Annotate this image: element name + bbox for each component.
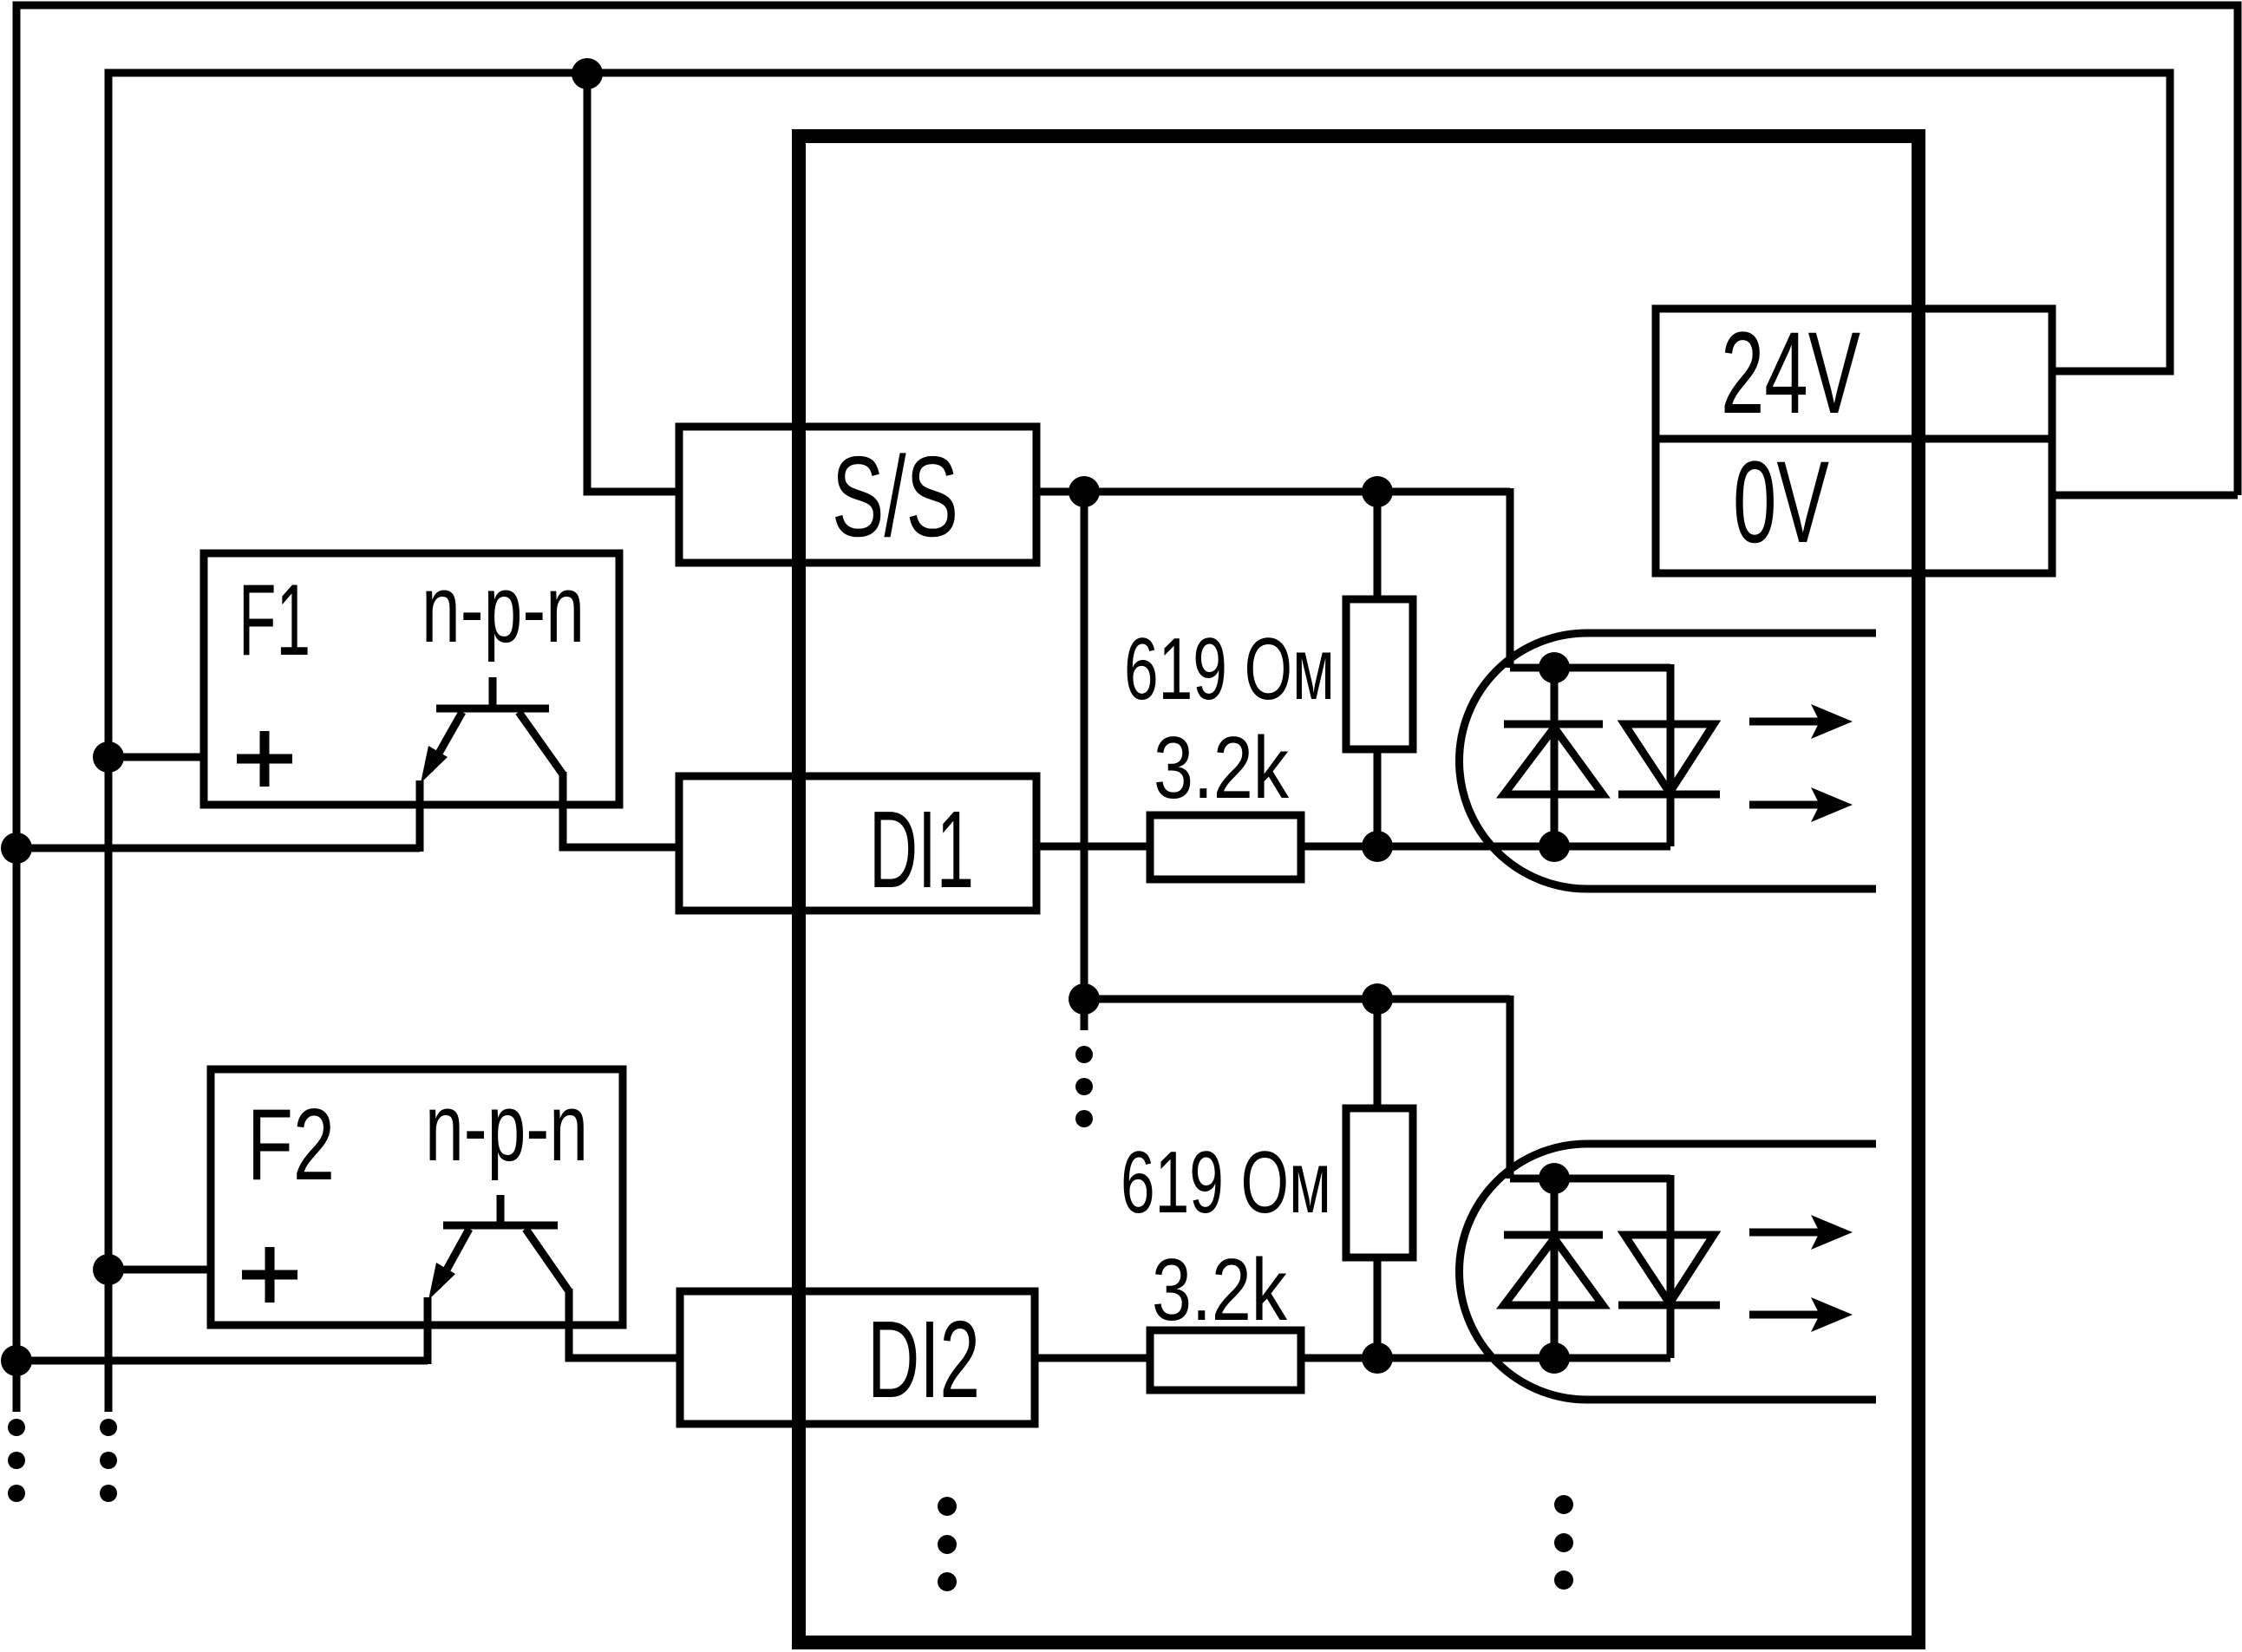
module outline (thick frame) xyxy=(799,136,1918,1642)
svg-text:F1: F1 xyxy=(239,563,310,676)
svg-text:n-p-n: n-p-n xyxy=(422,556,585,663)
sensor F2 box xyxy=(211,1069,623,1325)
continuation dots: module optocouplers column xyxy=(1554,1495,1573,1590)
optocoupler U2 LED D4 triangle (down) xyxy=(1624,1235,1714,1303)
optocoupler U1 LED D1 cathode bar xyxy=(1504,721,1603,728)
wire: feed from distribution run down to optocoupler U2 xyxy=(1507,996,1514,1179)
transistor Q2 emitter arrowhead xyxy=(428,1263,455,1300)
transistor Q1 emitter line xyxy=(429,712,462,770)
resistor R1 lead bottom xyxy=(1374,749,1382,846)
svg-text:F2: F2 xyxy=(247,1087,335,1201)
wire: DI2 to R4 xyxy=(1035,1355,1150,1362)
wire: channel drop to DI2 distribution xyxy=(1081,492,1088,999)
junction node: emitter wire on outer loop xyxy=(1,833,32,864)
optocoupler U2 input loop top rail xyxy=(1510,1175,1670,1183)
svg-text:0V: 0V xyxy=(1733,438,1829,567)
junction node: R1 bottom / DI1 line xyxy=(1362,831,1393,862)
optocoupler U2 output arrow 1 xyxy=(1749,1215,1853,1250)
optocoupler U1 right axis xyxy=(1667,664,1675,846)
wire: stub below distribution node xyxy=(1081,999,1088,1030)
wire: feed from S/S run down to optocoupler U1 xyxy=(1507,488,1514,668)
optocoupler U1 LED D2 triangle (down) xyxy=(1624,724,1714,793)
resistor R2 3.2k body (horizontal) xyxy=(1150,815,1301,879)
svg-text:619 Ом: 619 Ом xyxy=(1121,1134,1331,1231)
junction node: S/S run / R1 top xyxy=(1362,476,1393,507)
optocoupler U2 package bulb xyxy=(1460,1144,1877,1400)
F1 plus terminal mark xyxy=(237,731,292,787)
wire: Q2 emitter stub xyxy=(424,1297,432,1364)
junction node: distribution / R3 top xyxy=(1362,983,1393,1015)
F2 plus terminal mark xyxy=(242,1247,297,1303)
transistor Q2 base lead xyxy=(497,1195,505,1225)
transistor Q1 emitter arrowhead xyxy=(421,746,448,783)
wire: DI2 distribution run xyxy=(1084,996,1510,1003)
wire: F1 plus to +24V bus xyxy=(108,754,204,761)
wire: F2 emitter to outer loop xyxy=(16,1357,428,1365)
transistor Q2 base bar xyxy=(443,1222,558,1230)
optocoupler U1 input loop top rail xyxy=(1510,664,1670,672)
junction node: U2 bottom pin xyxy=(1539,1342,1570,1374)
wire: R4 to optocoupler U2 xyxy=(1301,1355,1670,1362)
continuation dots: outer loop bottom xyxy=(8,1419,25,1502)
junction node: top bus / S-S drop xyxy=(572,58,603,89)
wire: DI1 to R2 xyxy=(1036,843,1150,851)
resistor R4 3.2k body (horizontal) xyxy=(1150,1330,1301,1390)
junction node: R3 bottom / DI2 line xyxy=(1362,1342,1393,1374)
wire: R2 to optocoupler U1 xyxy=(1301,843,1670,851)
transistor Q2 emitter line xyxy=(437,1229,469,1287)
terminal DI2 box xyxy=(680,1291,1035,1424)
wire: +24V bus (left riser, top run, right riser to 24V terminal) xyxy=(108,73,2170,1412)
junction node: U2 top pin xyxy=(1539,1163,1570,1194)
wire: Q2 collector down and to DI2 xyxy=(569,1289,680,1358)
optocoupler U1 output arrow 1 xyxy=(1749,704,1853,739)
resistor R1 619 Om body xyxy=(1346,599,1413,749)
wire: F2 plus to +24V bus xyxy=(108,1266,211,1274)
optocoupler U2 right axis xyxy=(1667,1175,1675,1358)
junction node: U1 top pin xyxy=(1539,652,1570,683)
svg-text:3.2k: 3.2k xyxy=(1154,720,1289,817)
terminal block 24V/0V box xyxy=(1656,309,2052,573)
optocoupler U2 LED D3 triangle (up) xyxy=(1504,1238,1603,1305)
terminal S/S box xyxy=(679,427,1036,563)
optocoupler U2 left axis xyxy=(1551,1179,1559,1358)
continuation dots: +24V bus bottom xyxy=(100,1419,117,1502)
resistor R3 619 Om (vertical) lead top xyxy=(1374,999,1382,1108)
junction node: F2 plus wire on +24V bus xyxy=(93,1254,124,1285)
transistor Q1 base lead xyxy=(489,677,497,708)
optocoupler U1 LED D1 triangle (up) xyxy=(1504,728,1603,794)
junction node: U1 bottom pin xyxy=(1539,831,1570,862)
resistor R1 619 Om (vertical) lead top xyxy=(1374,492,1382,599)
transistor Q2 collector line xyxy=(526,1229,569,1291)
sensor F1 box xyxy=(204,553,619,805)
transistor Q1 base bar xyxy=(436,705,549,713)
optocoupler U2 LED D3 cathode bar xyxy=(1504,1231,1603,1239)
svg-text:S/S: S/S xyxy=(832,433,958,560)
wire: Q1 emitter stub xyxy=(416,780,424,852)
optocoupler U2 LED D4 cathode bar xyxy=(1618,1302,1720,1309)
svg-text:24V: 24V xyxy=(1721,309,1860,438)
svg-text:3.2k: 3.2k xyxy=(1152,1242,1287,1339)
terminal block divider xyxy=(1656,435,2052,443)
junction node: F2 emitter wire on outer loop xyxy=(1,1345,32,1376)
transistor Q1 collector line xyxy=(519,712,563,774)
wire: F1 emitter to outer loop xyxy=(16,845,420,852)
continuation dots: module inputs column xyxy=(938,1497,957,1591)
svg-text:619 Ом: 619 Ом xyxy=(1124,621,1335,718)
optocoupler U1 output arrow 2 xyxy=(1749,787,1853,822)
optocoupler U1 package bulb xyxy=(1460,633,1877,889)
resistor R3 619 Om body xyxy=(1346,1108,1413,1257)
svg-text:DI1: DI1 xyxy=(869,788,974,911)
optocoupler U2 output arrow 2 xyxy=(1749,1297,1853,1332)
continuation dots below stub xyxy=(1075,1046,1093,1127)
terminal DI1 box xyxy=(679,776,1036,911)
wire: S/S output run xyxy=(1036,488,1510,496)
optocoupler U1 left axis xyxy=(1551,668,1559,846)
wire: 0V lead from terminal block to outer loop xyxy=(2052,492,2238,500)
junction node: plus wire on +24V bus xyxy=(93,741,124,773)
junction node: S/S run / channel drop xyxy=(1069,476,1100,507)
wire: Q1 collector down and to DI1 xyxy=(563,772,679,847)
svg-text:n-p-n: n-p-n xyxy=(425,1074,588,1181)
wire: S/S drop from top bus xyxy=(587,73,679,492)
svg-text:DI2: DI2 xyxy=(867,1298,980,1420)
junction node: distribution / drop xyxy=(1069,983,1100,1015)
optocoupler U1 LED D2 cathode bar xyxy=(1618,791,1720,799)
resistor R3 lead bottom xyxy=(1374,1257,1382,1358)
